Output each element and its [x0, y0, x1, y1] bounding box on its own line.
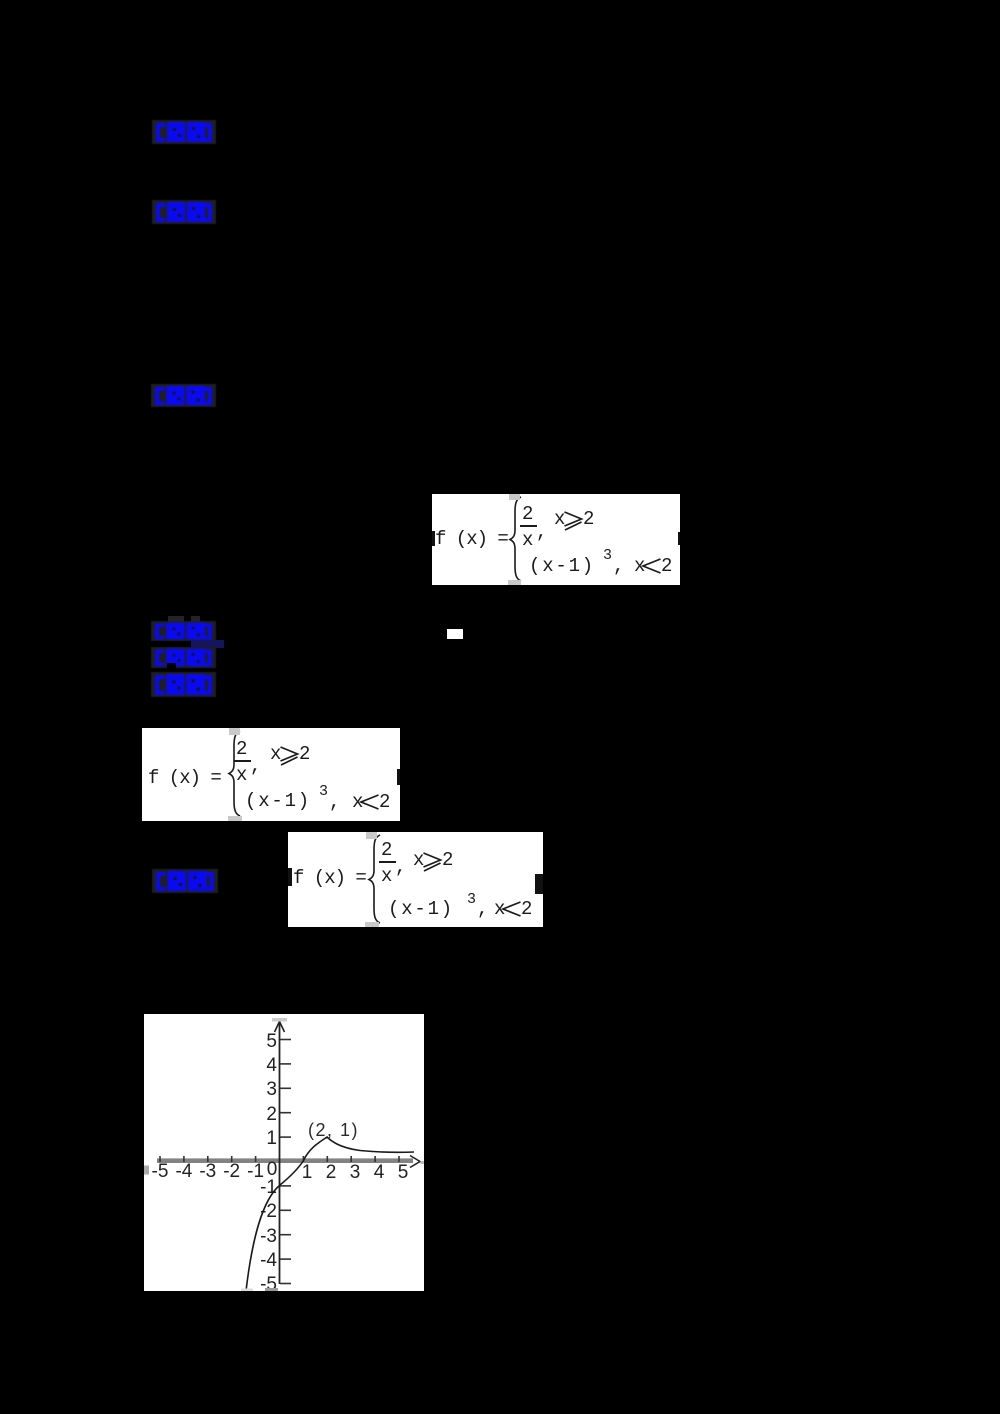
svg-text:-4: -4: [175, 1161, 192, 1182]
graph box: [144, 1014, 424, 1291]
svg-text:2: 2: [326, 1162, 337, 1183]
navy fragment: [191, 640, 224, 648]
y axis: [275, 1022, 285, 1285]
label L3 comment: [151, 384, 216, 407]
svg-text:4: 4: [266, 1055, 277, 1076]
label L1 analysis: [152, 120, 216, 144]
gray tabs above cluster: [168, 616, 184, 624]
x axis: [157, 1156, 420, 1168]
white dash: [447, 629, 463, 639]
svg-text:-2: -2: [223, 1161, 240, 1182]
svg-text:-3: -3: [199, 1161, 216, 1182]
y ticks: [280, 1040, 291, 1284]
svg-text:-3: -3: [260, 1226, 277, 1247]
formula box 3: [288, 832, 543, 927]
svg-text:1: 1: [302, 1162, 313, 1183]
x ticks: [160, 1156, 399, 1162]
label L5 topic: [151, 647, 216, 668]
label L7 answer2: [152, 869, 218, 893]
formula box 1: [432, 494, 680, 585]
label L6 analysis2: [151, 672, 216, 697]
label L4 keypoint: [151, 621, 216, 641]
svg-text:2: 2: [266, 1104, 277, 1125]
black notch: [167, 663, 176, 672]
svg-text:-1: -1: [260, 1177, 277, 1198]
svg-text:5: 5: [266, 1031, 277, 1052]
gray nubs: [272, 1018, 287, 1022]
axis number labels: [152, 1031, 409, 1295]
svg-text:-5: -5: [152, 1161, 169, 1182]
svg-text:-4: -4: [260, 1250, 277, 1271]
formula box 2: [142, 728, 400, 821]
svg-text:1: 1: [266, 1128, 277, 1149]
svg-text:4: 4: [374, 1162, 385, 1183]
svg-text:3: 3: [266, 1079, 277, 1100]
svg-text:(2, 1): (2, 1): [308, 1120, 359, 1140]
curve: [246, 1137, 414, 1291]
label L2 answer: [152, 200, 216, 224]
svg-text:3: 3: [350, 1162, 361, 1183]
svg-text:5: 5: [398, 1162, 409, 1183]
